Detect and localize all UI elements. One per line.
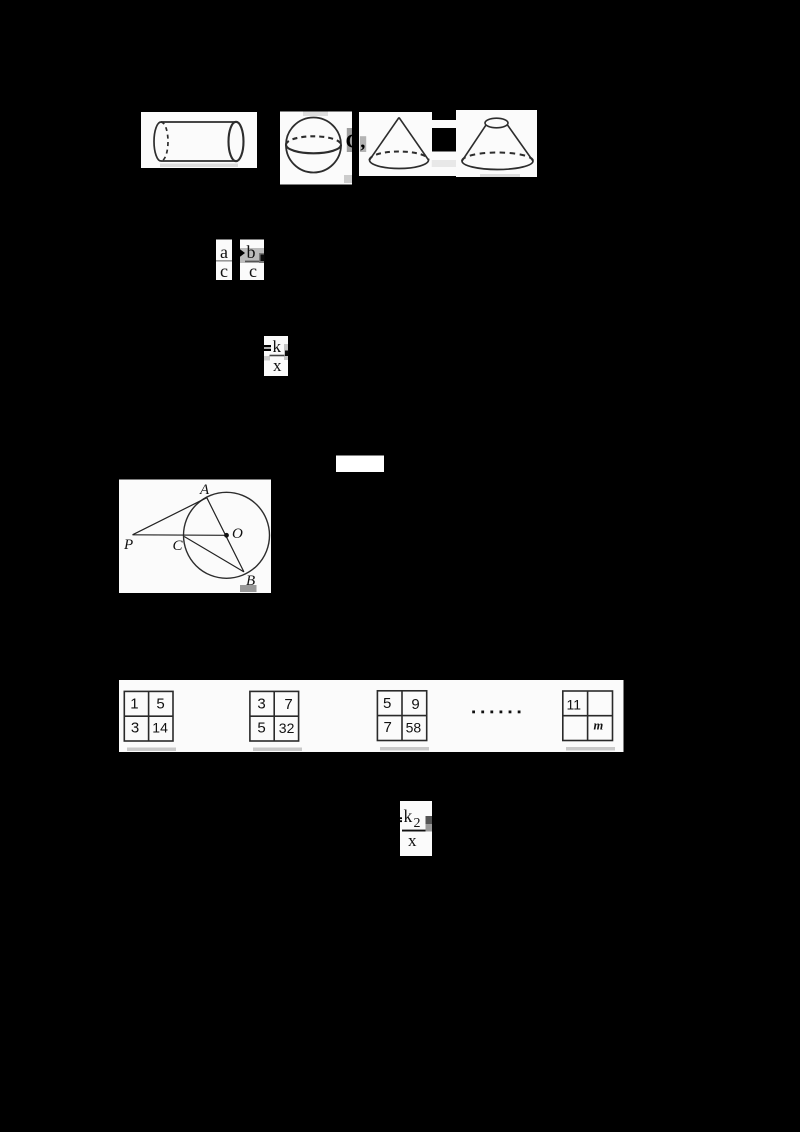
svg-text:c: c — [249, 261, 257, 281]
svg-text:5: 5 — [383, 695, 391, 712]
svg-text:k: k — [273, 337, 282, 356]
white gap notches between cone and frustum boxes — [432, 120, 457, 176]
svg-text:x: x — [408, 831, 417, 850]
figure box: frustum — [456, 110, 537, 177]
svg-text:A: A — [199, 482, 210, 498]
svg-text:b: b — [247, 242, 256, 262]
blank white rectangle — [336, 456, 384, 473]
svg-text:P: P — [123, 537, 133, 553]
svg-text:O: O — [232, 526, 243, 542]
svg-text:c: c — [220, 261, 228, 281]
table 3 (5,9 / 7,58) — [377, 691, 426, 741]
center dot O — [224, 533, 229, 538]
circle diagram box — [119, 480, 271, 594]
frustum drawing — [462, 118, 533, 169]
svg-text:B: B — [246, 573, 255, 589]
cone drawing — [370, 118, 429, 169]
svg-text:a: a — [220, 242, 228, 262]
svg-text:3: 3 — [257, 696, 265, 713]
figure box: cone — [359, 112, 432, 176]
svg-text:C,: C, — [346, 130, 366, 152]
svg-text:7: 7 — [384, 719, 392, 736]
svg-text:5: 5 — [156, 696, 164, 713]
sphere drawing — [286, 118, 341, 173]
table 1 (1,5 / 3,14) — [124, 691, 173, 741]
fraction b/c — [240, 240, 265, 282]
svg-text:5: 5 — [257, 720, 265, 737]
svg-text:7: 7 — [284, 696, 292, 713]
svg-text:11: 11 — [567, 697, 582, 713]
svg-text:1: 1 — [130, 696, 138, 713]
figure box: sphere — [280, 112, 352, 185]
table 2 (3,7 / 5,32) — [250, 691, 299, 741]
svg-text:58: 58 — [406, 720, 422, 736]
cylinder drawing — [154, 122, 243, 161]
letter C with comma (text fragment over gray patches) — [346, 128, 367, 152]
table 4 (11, blank / blank, m) — [563, 691, 613, 741]
svg-text:k: k — [404, 806, 413, 826]
figure box: cylinder — [141, 112, 257, 168]
svg-text:2: 2 — [414, 816, 421, 831]
circle O — [184, 492, 270, 578]
diagram lines: PA tangent, PO secant, AB chord, CB chord — [133, 498, 244, 572]
svg-text:x: x — [273, 356, 282, 375]
fraction = k/x — [264, 336, 289, 376]
comparison mark between fractions — [239, 249, 245, 258]
svg-text:m: m — [594, 719, 604, 733]
svg-text:3: 3 — [131, 720, 139, 737]
fraction = k2/x — [400, 801, 435, 856]
svg-text:32: 32 — [279, 720, 295, 736]
fraction a/c — [216, 240, 232, 282]
ellipsis dots — [472, 711, 520, 714]
svg-text:C: C — [173, 538, 184, 554]
number grid strip — [119, 680, 624, 752]
svg-text:14: 14 — [152, 720, 168, 736]
svg-text:9: 9 — [411, 696, 419, 713]
